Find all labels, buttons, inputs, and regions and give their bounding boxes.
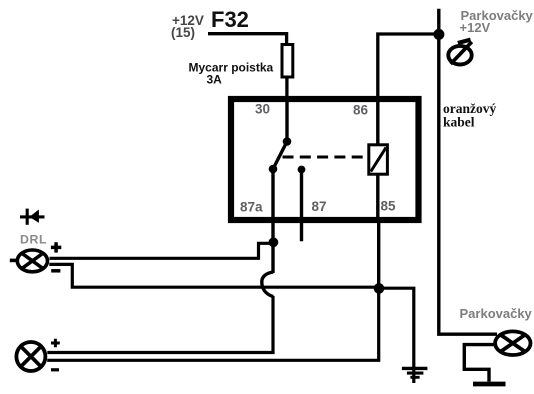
svg-text:+12V: +12V xyxy=(460,20,491,35)
svg-text:30: 30 xyxy=(255,102,270,117)
node parking +12V junction xyxy=(433,29,444,40)
lamp bottom left xyxy=(16,342,45,371)
lamp DRL xyxy=(10,250,48,272)
node ground junction xyxy=(374,283,385,294)
wire fuse to relay pin 30 xyxy=(285,77,288,99)
node switch common 30 xyxy=(283,137,292,146)
wire pin 87 stub xyxy=(300,170,303,242)
polarity plus DRL xyxy=(51,242,61,252)
Parkovacky +12V label xyxy=(460,8,534,35)
node contact 87a xyxy=(269,165,278,174)
svg-text:Mycarr poistka: Mycarr poistka xyxy=(189,61,274,75)
svg-text:87: 87 xyxy=(312,199,327,214)
wire DRL minus to ground node xyxy=(49,264,379,287)
ground parking lamp xyxy=(473,382,506,387)
svg-text:kabel: kabel xyxy=(443,115,475,130)
wire pin 87a down to DRL junction xyxy=(271,169,274,273)
wire bottom lamp minus to ground node xyxy=(47,288,379,360)
connector male symbol xyxy=(448,40,472,65)
svg-text:86: 86 xyxy=(353,103,369,118)
fuse value label Mycarr poistka 3A xyxy=(189,61,274,87)
polarity minus DRL xyxy=(51,269,60,273)
node junction 87a / DRL+ xyxy=(269,237,279,247)
node contact 87 xyxy=(298,166,306,174)
svg-text:85: 85 xyxy=(381,199,397,214)
node +12V (15) label xyxy=(171,13,204,40)
svg-text:DRL: DRL xyxy=(20,232,47,246)
svg-text:Parkovačky: Parkovačky xyxy=(460,306,533,321)
actuator dashed link blade to coil xyxy=(283,155,368,158)
svg-text:F32: F32 xyxy=(211,7,249,32)
wire +12V feed to fuse xyxy=(208,34,287,44)
diode D1 xyxy=(20,209,45,225)
wire coil bottom to pin 85 xyxy=(376,175,379,221)
svg-text:(15): (15) xyxy=(171,25,195,40)
lamp Parkovacky xyxy=(495,331,530,355)
wire orange cable to parking lamp xyxy=(439,9,497,334)
wire ground node to ground symbol xyxy=(379,288,414,383)
wire 87a branch to bottom lamp plus xyxy=(47,296,273,353)
ground main xyxy=(402,368,428,377)
polarity minus bottom lamp xyxy=(51,368,59,371)
wire pin 30 inside relay xyxy=(285,99,288,141)
relay box U1 xyxy=(231,99,419,220)
wire pin 86 to +12V parking node xyxy=(378,34,434,99)
wire pin 85 down to ground node xyxy=(377,220,380,288)
svg-text:3A: 3A xyxy=(207,73,223,87)
polarity plus bottom lamp xyxy=(51,339,60,348)
wire pin 86 coil top inside relay xyxy=(376,99,379,144)
wire junction to DRL plus xyxy=(50,243,274,258)
switch blade contact 30-87a xyxy=(273,142,287,170)
oranzovy kabel label xyxy=(443,101,496,129)
wire parking lamp to ground xyxy=(464,345,493,382)
svg-text:87a: 87a xyxy=(240,200,263,215)
wire hop crossing xyxy=(262,272,273,297)
relay coil K1 xyxy=(369,145,388,174)
fuse F32 xyxy=(282,45,293,78)
